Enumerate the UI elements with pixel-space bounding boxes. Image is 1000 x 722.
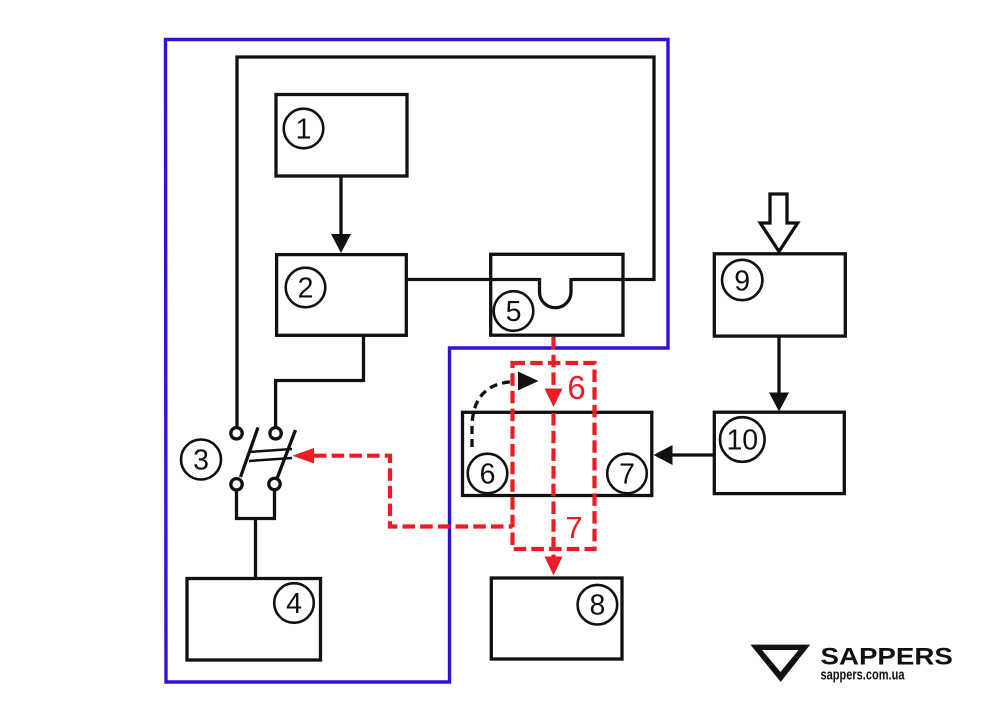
svg-text:6: 6 bbox=[567, 369, 585, 406]
switch S3 bottom-left contact bbox=[231, 479, 242, 490]
red dashed feedback wire to switch with left arrowhead bbox=[314, 456, 513, 527]
wire box2 right to box5 left bbox=[406, 278, 491, 281]
svg-text:2: 2 bbox=[298, 273, 314, 305]
svg-text:7: 7 bbox=[565, 510, 582, 545]
wire box2 bottom to switch right contact bbox=[276, 335, 364, 428]
wire top loop from switch left contact up over to box5 right side bbox=[237, 57, 654, 428]
blue enclosure outline bbox=[166, 40, 669, 683]
svg-text:1: 1 bbox=[296, 114, 312, 146]
svg-text:4: 4 bbox=[286, 588, 302, 620]
red dashed region outline bbox=[513, 363, 595, 549]
red dashed arrow 7 through box to box8 bbox=[551, 413, 555, 558]
switch S3 top-right contact bbox=[270, 428, 281, 439]
arrow box10 to box7 bbox=[671, 453, 714, 456]
box 8 bbox=[491, 578, 622, 659]
box 2 bbox=[277, 255, 407, 336]
svg-text:8: 8 bbox=[589, 590, 605, 622]
svg-text:10: 10 bbox=[726, 425, 758, 457]
black dashed curved arrow into region bbox=[472, 382, 515, 448]
svg-text:sappers.com.ua: sappers.com.ua bbox=[821, 667, 905, 684]
wire switch bottom contacts joined to box4 bbox=[237, 490, 275, 579]
switch S3 left blade bbox=[241, 428, 259, 478]
svg-text:7: 7 bbox=[619, 459, 635, 491]
box 4 bbox=[187, 579, 321, 661]
svg-text:6: 6 bbox=[480, 459, 496, 491]
box 10 bbox=[714, 412, 844, 493]
arrow box1 to box2 bbox=[339, 176, 342, 236]
label 3 circle bbox=[181, 440, 221, 480]
logo triangle bbox=[750, 645, 810, 682]
svg-text:5: 5 bbox=[506, 296, 522, 328]
switch S3 linkage lines bbox=[249, 449, 292, 452]
svg-text:3: 3 bbox=[193, 445, 209, 477]
box 1 bbox=[276, 95, 407, 177]
switch S3 right blade bbox=[277, 430, 296, 479]
box 9 bbox=[714, 254, 845, 336]
box 6/7 bbox=[463, 412, 652, 495]
wire through box 5 with downward loop notch bbox=[491, 278, 623, 281]
switch S3 bottom-right contact bbox=[269, 478, 280, 489]
box 5 bbox=[491, 254, 623, 335]
arrow box9 to box10 bbox=[777, 337, 780, 395]
switch S3 top-left contact bbox=[231, 428, 242, 439]
svg-text:9: 9 bbox=[734, 265, 750, 297]
fat hollow input arrow into box 9 bbox=[760, 194, 797, 252]
red dashed arrow 6 from box5 into box6 bbox=[551, 337, 555, 389]
